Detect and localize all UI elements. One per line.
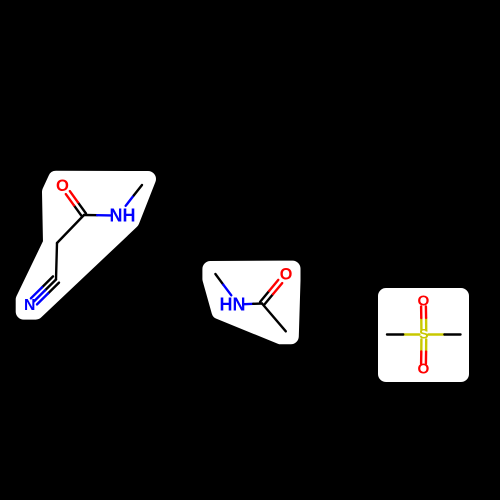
svg-text:O: O <box>417 361 429 378</box>
white halo blob around fragment C (dimethyl sulfone) <box>386 296 461 374</box>
bond C4=O2 carbonyl double bond fragment B <box>264 294 273 305</box>
bond C1-Ca alpha C-C fragment A <box>57 215 84 243</box>
svg-text:O: O <box>280 266 293 284</box>
svg-text:S: S <box>419 327 428 343</box>
svg-text:N: N <box>24 297 35 314</box>
white halo blob around fragment A (2-cyano-N-methylacetamide) <box>24 179 148 312</box>
svg-text:HN: HN <box>220 294 246 314</box>
bond Ca-Cn C-C to nitrile C fragment A <box>56 243 57 280</box>
bond C4-C5 acetyl methyl fragment B <box>262 304 286 332</box>
svg-text:O: O <box>417 292 429 309</box>
bond S1=O3 sulfonyl S=O top fragment C <box>425 318 428 330</box>
bond S1-C7 S-methyl right fragment C <box>428 333 444 335</box>
bond S1-C6 S-methyl left fragment C <box>403 333 419 335</box>
bond C1=O1 carbonyl double bond fragment A <box>78 202 86 213</box>
bond C1-N1 amide C-N fragment A <box>84 214 97 217</box>
svg-text:NH: NH <box>110 206 136 226</box>
bond N1-C2 N-methyl fragment A <box>126 195 134 205</box>
bond N3-C4 amide N-C fragment B <box>244 303 253 306</box>
bond Cn#N2 nitrile triple bond fragment A <box>45 280 56 291</box>
bond C3-N3 N-methyl fragment B <box>215 274 223 285</box>
svg-text:O: O <box>56 176 69 195</box>
white halo blob around fragment B (N-methylacetamide) <box>210 269 292 337</box>
bond S1=O4 sulfonyl S=O bottom fragment C <box>420 340 423 352</box>
